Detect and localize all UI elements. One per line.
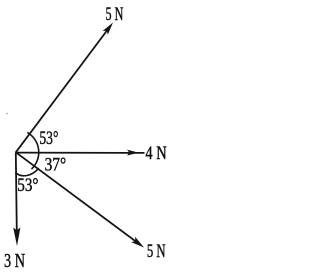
svg-text:5 N: 5 N: [147, 241, 166, 262]
svg-text:53°: 53°: [39, 128, 58, 149]
wire: 3N force vector down (shaft): [16, 152, 17, 240]
angle arc spanning 53 deg and 37 deg sectors: [27, 132, 38, 169]
arrowhead of up-right 5N vector: [103, 23, 113, 35]
angle arc for lower 53 deg between 3N and lower 5N: [15, 168, 38, 176]
arrowhead of 4N vector: [127, 150, 139, 156]
svg-text:4 N: 4 N: [145, 143, 167, 164]
svg-text:5 N: 5 N: [106, 4, 124, 25]
svg-text:3 N: 3 N: [4, 250, 25, 272]
svg-text:53°: 53°: [17, 175, 38, 196]
wire: 4N force vector right (shaft): [16, 152, 145, 154]
arrowhead of down-right 5N vector: [131, 237, 144, 248]
svg-text:37°: 37°: [45, 155, 67, 176]
arrowhead of 3N vector: [13, 228, 20, 247]
scan speck: [6, 113, 7, 114]
wire: 5N force vector up-right (shaft): [16, 27, 110, 153]
wire: 5N force vector down-right (shaft): [16, 152, 141, 245]
